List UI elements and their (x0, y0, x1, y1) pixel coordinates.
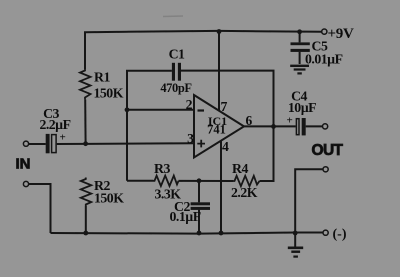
node R1/R2/C3/pin3 (83, 141, 88, 146)
svg-text:10µF: 10µF (288, 100, 316, 115)
wire pin 6 output (244, 125, 296, 127)
svg-text:C1: C1 (169, 47, 185, 62)
capacitor C5 plates (291, 42, 310, 52)
capacitor C1 plates (172, 63, 181, 81)
op-amp plus sign (197, 140, 205, 148)
scan smudge (163, 15, 183, 18)
ground (C5 bypass) (290, 66, 309, 74)
wire pin 4 (220, 140, 222, 233)
svg-text:0.01µF: 0.01µF (305, 52, 343, 67)
wire bottom ground lead (294, 233, 296, 247)
terminal +9V (322, 29, 327, 34)
terminal IN lower (23, 181, 28, 186)
svg-text:+: + (287, 115, 293, 127)
capacitor C4 plates (electrolytic: hollow + solid) (296, 119, 299, 135)
svg-text:R3: R3 (154, 161, 170, 176)
node R3/R4/C2 (197, 178, 202, 183)
node pin4 / ground rail (219, 231, 224, 236)
svg-text:R4: R4 (232, 161, 248, 176)
svg-text:150K: 150K (94, 190, 124, 205)
svg-text:+9V: +9V (328, 26, 354, 42)
wire C2 top lead (198, 181, 200, 203)
resistor R2 (81, 178, 92, 207)
op-amp minus sign (198, 109, 205, 111)
capacitor C3 plates (electrolytic: solid + hollow) (46, 134, 50, 153)
wire lower OUT branch (295, 169, 323, 233)
svg-text:470pF: 470pF (160, 81, 192, 95)
wire R2 bottom lead (85, 206, 87, 233)
svg-text:R1: R1 (94, 70, 110, 85)
wire pin 7 (218, 32, 220, 111)
node C5 / +9V rail (297, 29, 302, 34)
svg-text:IN: IN (16, 155, 31, 172)
capacitor C2 plates (191, 202, 210, 210)
svg-text:OUT: OUT (312, 142, 344, 159)
wire C2 bottom lead (198, 210, 200, 233)
wire R1 bottom lead (84, 99, 86, 143)
resistor R3 (153, 176, 179, 186)
wire pin2 node vertical (127, 71, 172, 181)
wire C3 to pin 3 (57, 142, 194, 145)
svg-text:7: 7 (221, 99, 228, 114)
resistor R1 (80, 69, 91, 99)
svg-text:4: 4 (222, 139, 229, 154)
node pin6 / feedback (271, 124, 276, 129)
svg-text:0.1µF: 0.1µF (170, 209, 201, 224)
svg-text:3: 3 (187, 131, 194, 146)
svg-text:741: 741 (207, 123, 226, 137)
svg-text:+: + (60, 132, 66, 144)
wire C1 right to feedback corner (181, 71, 274, 127)
node output ground / rail (293, 231, 298, 236)
wire lower IN terminal to ground rail (29, 184, 51, 233)
svg-text:(-): (-) (333, 227, 347, 242)
wire C5 bottom lead (299, 52, 301, 64)
wire ground rail (51, 233, 323, 234)
terminal lower OUT (323, 167, 328, 172)
node R2 / ground rail (83, 231, 88, 236)
svg-text:150K: 150K (94, 85, 124, 100)
node pin7 / +9V rail (217, 29, 222, 34)
svg-text:6: 6 (246, 113, 253, 128)
op-amp IC1 triangle (194, 95, 244, 158)
wire R3 left lead (127, 180, 153, 182)
wire C5 top lead (299, 32, 301, 43)
wire input to C3 (29, 143, 46, 145)
svg-text:2: 2 (186, 97, 193, 112)
svg-text:2.2K: 2.2K (231, 185, 258, 200)
wire pin 2 stub (127, 109, 194, 111)
terminal (-) (323, 230, 328, 235)
wire feedback vertical lower (260, 126, 274, 181)
wire R3 to R4 (179, 180, 234, 182)
node pin2 (125, 107, 130, 112)
ground (bottom rail) (288, 248, 303, 257)
node C2 / ground rail (197, 231, 202, 236)
wire C4 to OUT terminal (306, 125, 323, 127)
terminal IN upper (23, 141, 28, 146)
svg-text:2.2µF: 2.2µF (39, 117, 70, 132)
resistor R4 (233, 176, 260, 186)
wire top rail +9V (85, 31, 322, 69)
terminal OUT (323, 124, 328, 129)
